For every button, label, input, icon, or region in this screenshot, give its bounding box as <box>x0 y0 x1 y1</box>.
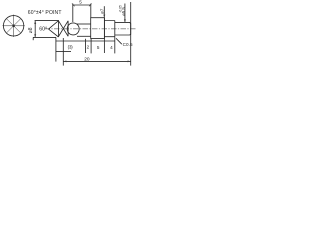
chain dim line <box>56 40 115 42</box>
dim5 left extension <box>72 4 74 22</box>
svg-text:-0.05: -0.05 <box>118 5 122 12</box>
end view spokes <box>2 15 24 37</box>
section D with chamfer <box>115 22 131 35</box>
extension left of chain <box>62 38 64 66</box>
chain extension c <box>103 18 105 53</box>
chain extension d <box>114 21 116 54</box>
svg-text:5: 5 <box>97 45 100 50</box>
chain extension b <box>90 39 92 54</box>
flange dia extension <box>103 6 105 17</box>
section C <box>104 21 114 37</box>
ball <box>67 23 79 35</box>
svg-text:20: 20 <box>84 56 90 62</box>
dim5 right extension <box>90 4 92 18</box>
chain extension a <box>85 39 87 53</box>
end view circle <box>3 16 23 36</box>
cylinder A top edge <box>77 23 91 25</box>
svg-text:60°: 60° <box>39 27 47 33</box>
dia8 arrows <box>34 21 36 37</box>
svg-text:2: 2 <box>87 45 90 50</box>
dim20 arrows <box>63 61 130 63</box>
svg-text:60°±4° POINT: 60°±4° POINT <box>28 10 62 16</box>
svg-text:(3): (3) <box>68 45 73 50</box>
end view center dot <box>12 25 15 28</box>
svg-text:C0.5: C0.5 <box>123 42 133 47</box>
overall dim 20 line <box>63 60 130 62</box>
svg-text:5: 5 <box>79 0 82 5</box>
dia8 dim line <box>34 21 36 38</box>
svg-text:⌀8: ⌀8 <box>28 27 34 33</box>
axis centerline <box>45 28 136 30</box>
svg-text:4: 4 <box>110 45 113 50</box>
short ref dim line <box>56 51 71 53</box>
groove X section <box>59 21 69 37</box>
dim5 line <box>73 4 91 6</box>
section D dia arrow <box>124 19 126 22</box>
extension tick <box>32 37 34 40</box>
section D dia extension <box>124 4 126 23</box>
dia8 dim top extension <box>35 20 59 22</box>
cone point <box>49 21 59 37</box>
flange dia arrow <box>103 15 105 18</box>
flange B <box>91 18 105 39</box>
right end face extension <box>130 2 132 66</box>
dim5 end ticks <box>72 3 92 6</box>
extension at cone base <box>55 37 57 61</box>
svg-text:⌀7: ⌀7 <box>100 8 105 14</box>
cylinder A bottom edge <box>77 35 91 37</box>
chamfer leader <box>116 38 122 44</box>
dia8 dim bottom extension <box>33 36 56 38</box>
